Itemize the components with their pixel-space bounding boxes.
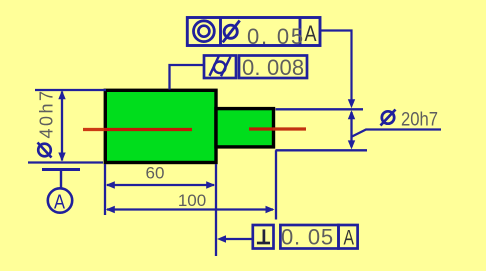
dimension line Ø20h7 (vertical, arrows outward) [350, 112, 352, 147]
cylindricity frame leader [170, 65, 205, 90]
cylindricity frame symbol box [204, 56, 236, 79]
perpendicularity symbol box [253, 225, 274, 249]
perpendicularity frame leader [226, 238, 253, 240]
extension line below left corner (for 60/100 dims) [104, 164, 106, 215]
dimension line Ø40h7 [61, 92, 63, 161]
datum A symbol: bar [42, 168, 80, 171]
perpendicularity symbol [257, 242, 270, 245]
svg-text:A: A [305, 21, 317, 46]
centerline segment right (red axis line, over yellow) [273, 127, 306, 130]
svg-text:20h7: 20h7 [401, 110, 438, 131]
extension line top of small cylinder [276, 108, 364, 110]
diameter symbol in frame [224, 25, 237, 38]
leader for Ø20h7 label [352, 130, 441, 137]
concentricity frame leader [320, 31, 352, 101]
extension line bottom-left (Ø40h7 lower) [28, 161, 103, 163]
svg-text:0. 05: 0. 05 [281, 225, 334, 250]
label Ø20h7 [382, 111, 394, 123]
extension line top-left (Ø40h7 upper) [35, 89, 106, 91]
dimension line 100 [107, 208, 273, 210]
label Ø40h7 (rotated) [38, 144, 51, 157]
extension line from shoulder (right edge of big cylinder) [215, 164, 217, 256]
centerline segment left (red axis line, over yellow) [83, 128, 104, 131]
svg-text:A: A [54, 192, 66, 214]
perpendicularity value box [280, 225, 338, 249]
centerline segment right (red axis line, over green) [249, 127, 273, 130]
cylindricity value box [239, 56, 307, 79]
svg-text:100: 100 [178, 191, 206, 210]
dimension line 60 [107, 184, 214, 186]
datum A symbol: circle [48, 188, 72, 212]
extension line from right end of small cylinder [275, 150, 277, 219]
centerline segment left (red axis line, over green) [104, 128, 192, 131]
concentricity symbol [194, 21, 215, 42]
concentricity feature control frame [187, 18, 320, 46]
svg-text:A: A [344, 227, 355, 250]
svg-text:40h7: 40h7 [37, 88, 57, 138]
svg-text:0. 05: 0. 05 [247, 24, 305, 49]
cylindricity symbol [214, 62, 226, 74]
datum A symbol: stem [60, 170, 62, 189]
svg-text:60: 60 [146, 164, 165, 183]
datum box [339, 225, 358, 249]
extension line bottom of small cylinder [276, 149, 368, 151]
svg-text:0. 008: 0. 008 [242, 55, 304, 80]
small cylinder body (front view, Ø20 section) [216, 109, 274, 147]
big cylinder body (front view, Ø40 section) [105, 90, 216, 162]
